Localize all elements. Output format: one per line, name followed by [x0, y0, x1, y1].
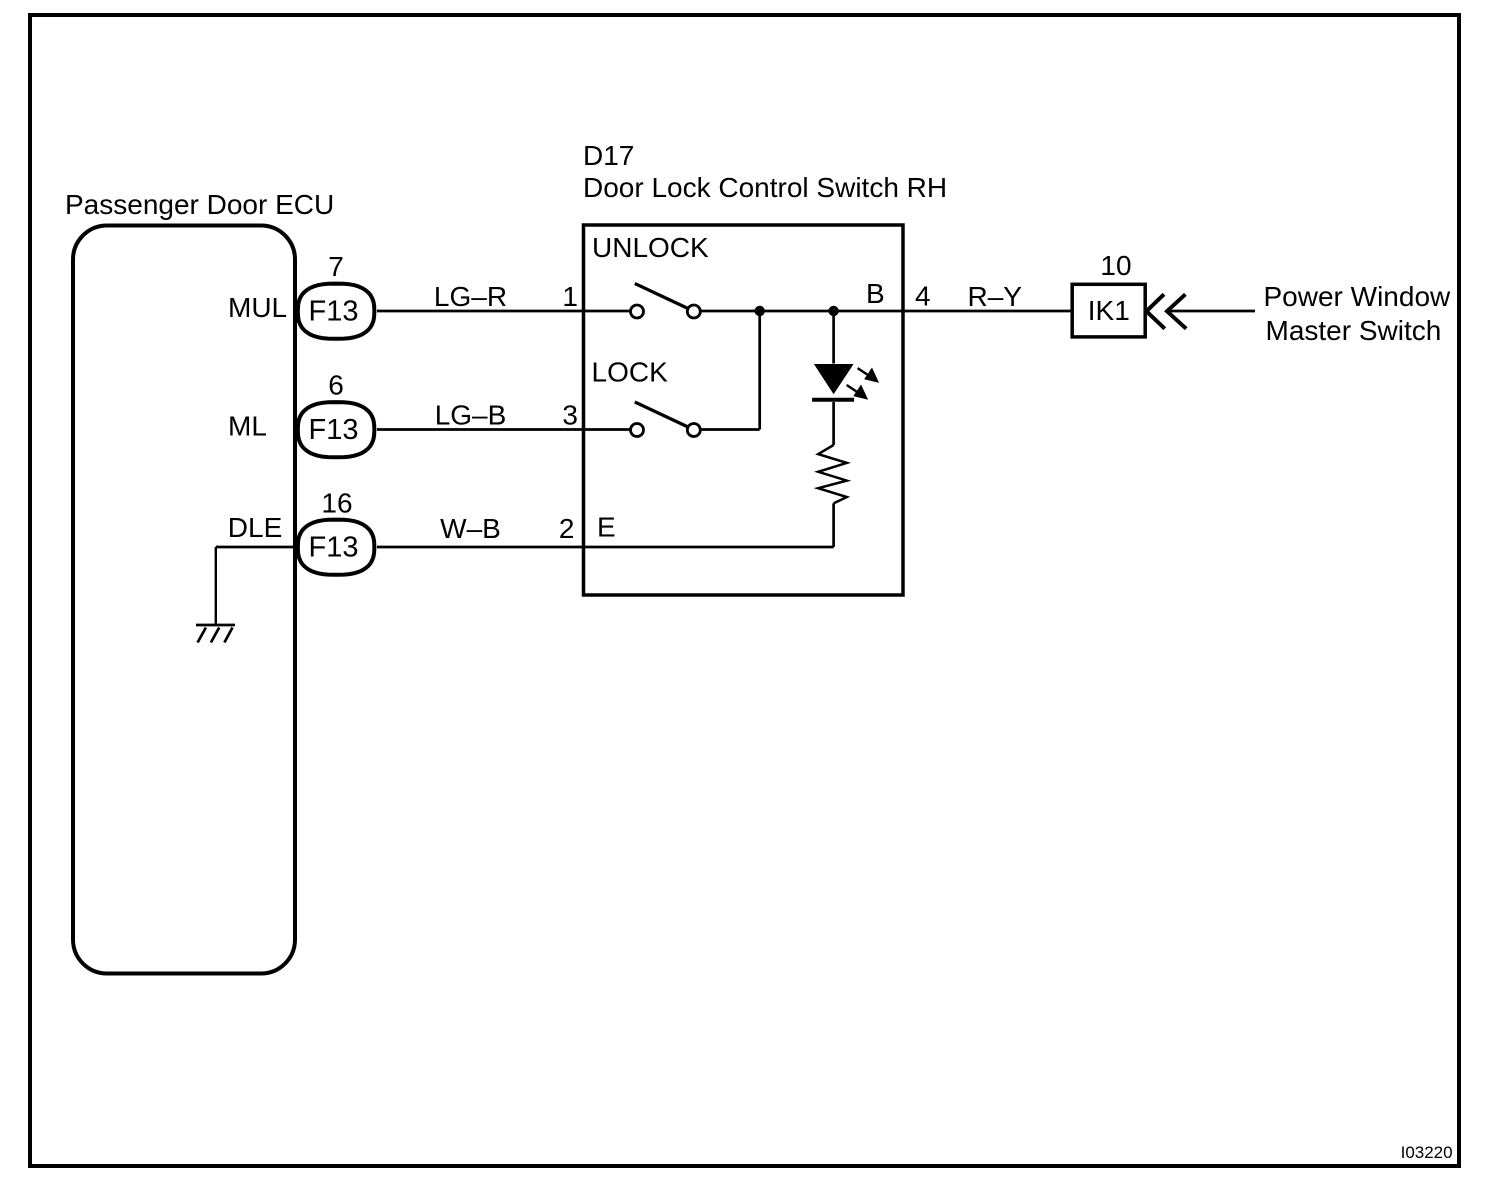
- svg-text:F13: F13: [309, 414, 359, 446]
- svg-text:Master Switch: Master Switch: [1266, 315, 1442, 346]
- svg-text:LG–R: LG–R: [434, 281, 507, 312]
- svg-text:LG–B: LG–B: [435, 400, 507, 431]
- svg-text:7: 7: [328, 251, 344, 282]
- svg-text:F13: F13: [309, 296, 359, 328]
- svg-text:F13: F13: [309, 532, 359, 564]
- svg-text:IK1: IK1: [1088, 295, 1130, 326]
- svg-text:MUL: MUL: [228, 292, 287, 323]
- svg-text:B: B: [866, 278, 885, 309]
- svg-text:W–B: W–B: [440, 513, 501, 544]
- svg-text:E: E: [597, 512, 616, 543]
- svg-text:D17: D17: [583, 140, 634, 171]
- svg-text:ML: ML: [228, 411, 267, 442]
- svg-text:R–Y: R–Y: [968, 281, 1023, 312]
- svg-text:1: 1: [562, 281, 578, 312]
- svg-text:DLE: DLE: [228, 512, 282, 543]
- svg-text:LOCK: LOCK: [592, 357, 669, 388]
- svg-text:10: 10: [1100, 250, 1131, 281]
- svg-text:I03220: I03220: [1401, 1143, 1453, 1162]
- svg-text:Power Window: Power Window: [1264, 281, 1452, 312]
- svg-text:4: 4: [915, 281, 931, 312]
- svg-text:16: 16: [321, 488, 352, 519]
- svg-text:Door Lock Control Switch RH: Door Lock Control Switch RH: [583, 172, 947, 203]
- svg-text:6: 6: [328, 370, 344, 401]
- svg-text:Passenger Door ECU: Passenger Door ECU: [65, 189, 334, 220]
- svg-text:UNLOCK: UNLOCK: [592, 232, 709, 263]
- svg-text:3: 3: [562, 400, 578, 431]
- svg-text:2: 2: [559, 513, 575, 544]
